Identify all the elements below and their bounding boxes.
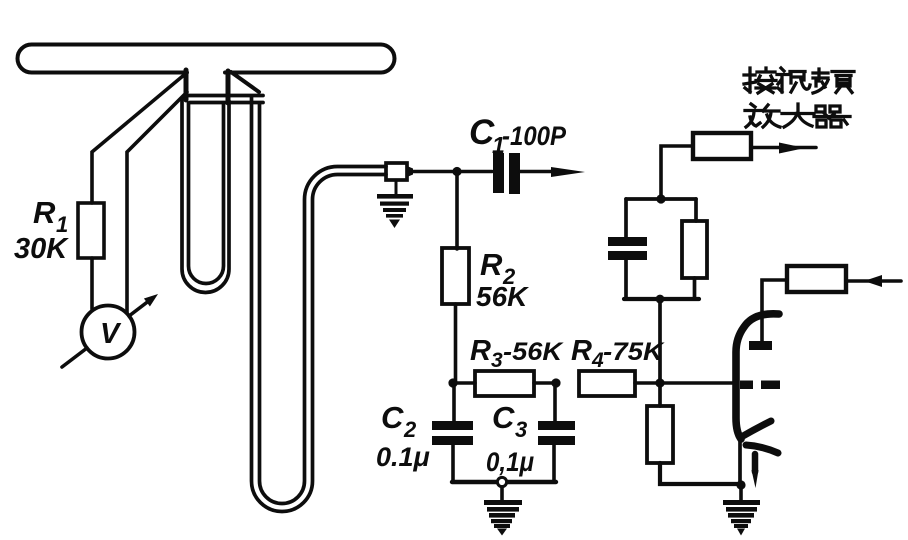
chinese label line1 jie shi pin — [744, 68, 854, 93]
ground under C2 C3 — [484, 487, 522, 536]
svg-text:R: R — [571, 335, 592, 367]
feed stub left — [184, 70, 189, 100]
svg-text:0.1μ: 0.1μ — [376, 442, 430, 472]
wire to R1 — [92, 75, 184, 203]
label R2 56K — [476, 247, 529, 312]
node H junction — [736, 480, 745, 489]
wire to meter — [127, 92, 187, 313]
ground at connector — [377, 180, 413, 228]
capacitor C2 — [432, 387, 473, 482]
bottom wire C2 C3 — [452, 480, 556, 484]
svg-text:R: R — [33, 195, 56, 230]
decoupling capacitor — [608, 199, 696, 299]
svg-text:R: R — [480, 247, 503, 282]
label C1-100P — [469, 113, 567, 158]
wire F down — [658, 299, 662, 406]
feed diagonal to balun — [231, 72, 259, 92]
tube cathode lead — [738, 440, 742, 485]
feed stub right — [226, 71, 231, 103]
svg-text:C: C — [381, 400, 404, 435]
plate load resistor R5 — [661, 133, 751, 197]
svg-text:V: V — [100, 318, 122, 350]
tube plate bar — [749, 341, 772, 350]
node A junction — [452, 167, 461, 176]
output arrow right of C1 — [520, 167, 585, 177]
resistor R3 — [453, 371, 557, 396]
node F junction — [656, 295, 665, 304]
feed crossbar — [186, 96, 263, 103]
tube grid dashes — [740, 381, 780, 390]
label R4-75K — [571, 335, 665, 372]
svg-text:-75K: -75K — [603, 338, 665, 366]
svg-text:56K: 56K — [476, 281, 529, 312]
svg-text:-56K: -56K — [503, 338, 564, 366]
capacitor C1 — [457, 153, 520, 194]
matching stub U — [182, 99, 229, 293]
wire R1 to meter — [90, 258, 94, 309]
chinese label line2 fang da qi — [745, 104, 850, 127]
svg-text:30K: 30K — [14, 233, 69, 265]
resistor R4 — [579, 371, 733, 396]
coax balun U loop — [252, 97, 387, 511]
arrow to video amp — [751, 143, 816, 154]
antenna dipole — [18, 45, 395, 73]
screen resistor R8 — [762, 266, 846, 341]
label C3 0.1u — [486, 400, 534, 477]
node G junction — [655, 378, 664, 387]
meter arrow — [62, 294, 158, 367]
svg-text:2: 2 — [403, 417, 417, 442]
resistor R2 — [442, 175, 469, 382]
ground at tube — [723, 485, 760, 536]
meter V — [82, 306, 135, 359]
label V — [100, 318, 122, 350]
svg-text:0,1μ: 0,1μ — [486, 447, 534, 477]
capacitor C3 — [538, 387, 575, 482]
node C junction — [551, 378, 560, 387]
svg-text:-100P: -100P — [502, 121, 567, 151]
svg-text:3: 3 — [515, 417, 527, 442]
node E junction — [656, 194, 665, 203]
svg-text:3: 3 — [491, 349, 503, 372]
tube cathode strokes — [743, 421, 778, 488]
coax connector plug — [386, 163, 455, 180]
svg-text:C: C — [492, 400, 515, 435]
svg-text:R: R — [470, 335, 491, 367]
lower resistor R7 — [647, 406, 738, 484]
input arrow at right edge — [846, 275, 901, 287]
ring junction node D — [497, 477, 506, 486]
bottom wire of parallel pair — [624, 297, 699, 301]
label C2 0.1u — [376, 400, 430, 472]
cathode resistor parallel — [682, 199, 707, 299]
tube V1 body arc — [736, 314, 779, 439]
node B junction — [448, 378, 457, 387]
label R3-56K — [470, 335, 564, 372]
resistor R1 — [78, 203, 104, 258]
label R1 — [14, 195, 69, 265]
